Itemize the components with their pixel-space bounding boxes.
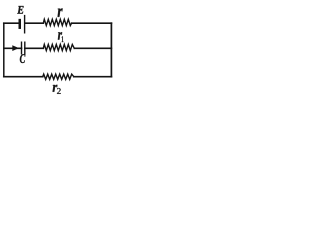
label r2 base [53,85,58,92]
wire middle-left segment [4,47,22,49]
wire bottom-right segment [74,76,112,78]
label r2 subscript [57,88,61,94]
wire middle-right segment [74,47,111,49]
wire left edge [3,23,5,76]
resistor r [43,19,71,25]
capacitor C right plate [24,42,26,54]
label r1 base [58,32,62,39]
label r1 subscript [62,36,64,42]
battery E negative plate [19,20,22,28]
current direction arrow [12,45,19,51]
wire battery to resistor r [25,22,43,24]
resistor r1 [43,44,74,50]
resistor r2 [43,74,74,79]
wire top-left segment [4,22,19,24]
label E [17,6,23,14]
label C [20,54,25,63]
wire capacitor to resistor r1 [25,47,44,49]
wire bottom-left segment [4,76,43,78]
wire right edge [110,23,112,76]
label r [58,8,63,17]
battery E positive plate [24,16,26,33]
capacitor C left plate [21,42,23,54]
wire top-right segment [72,22,112,24]
